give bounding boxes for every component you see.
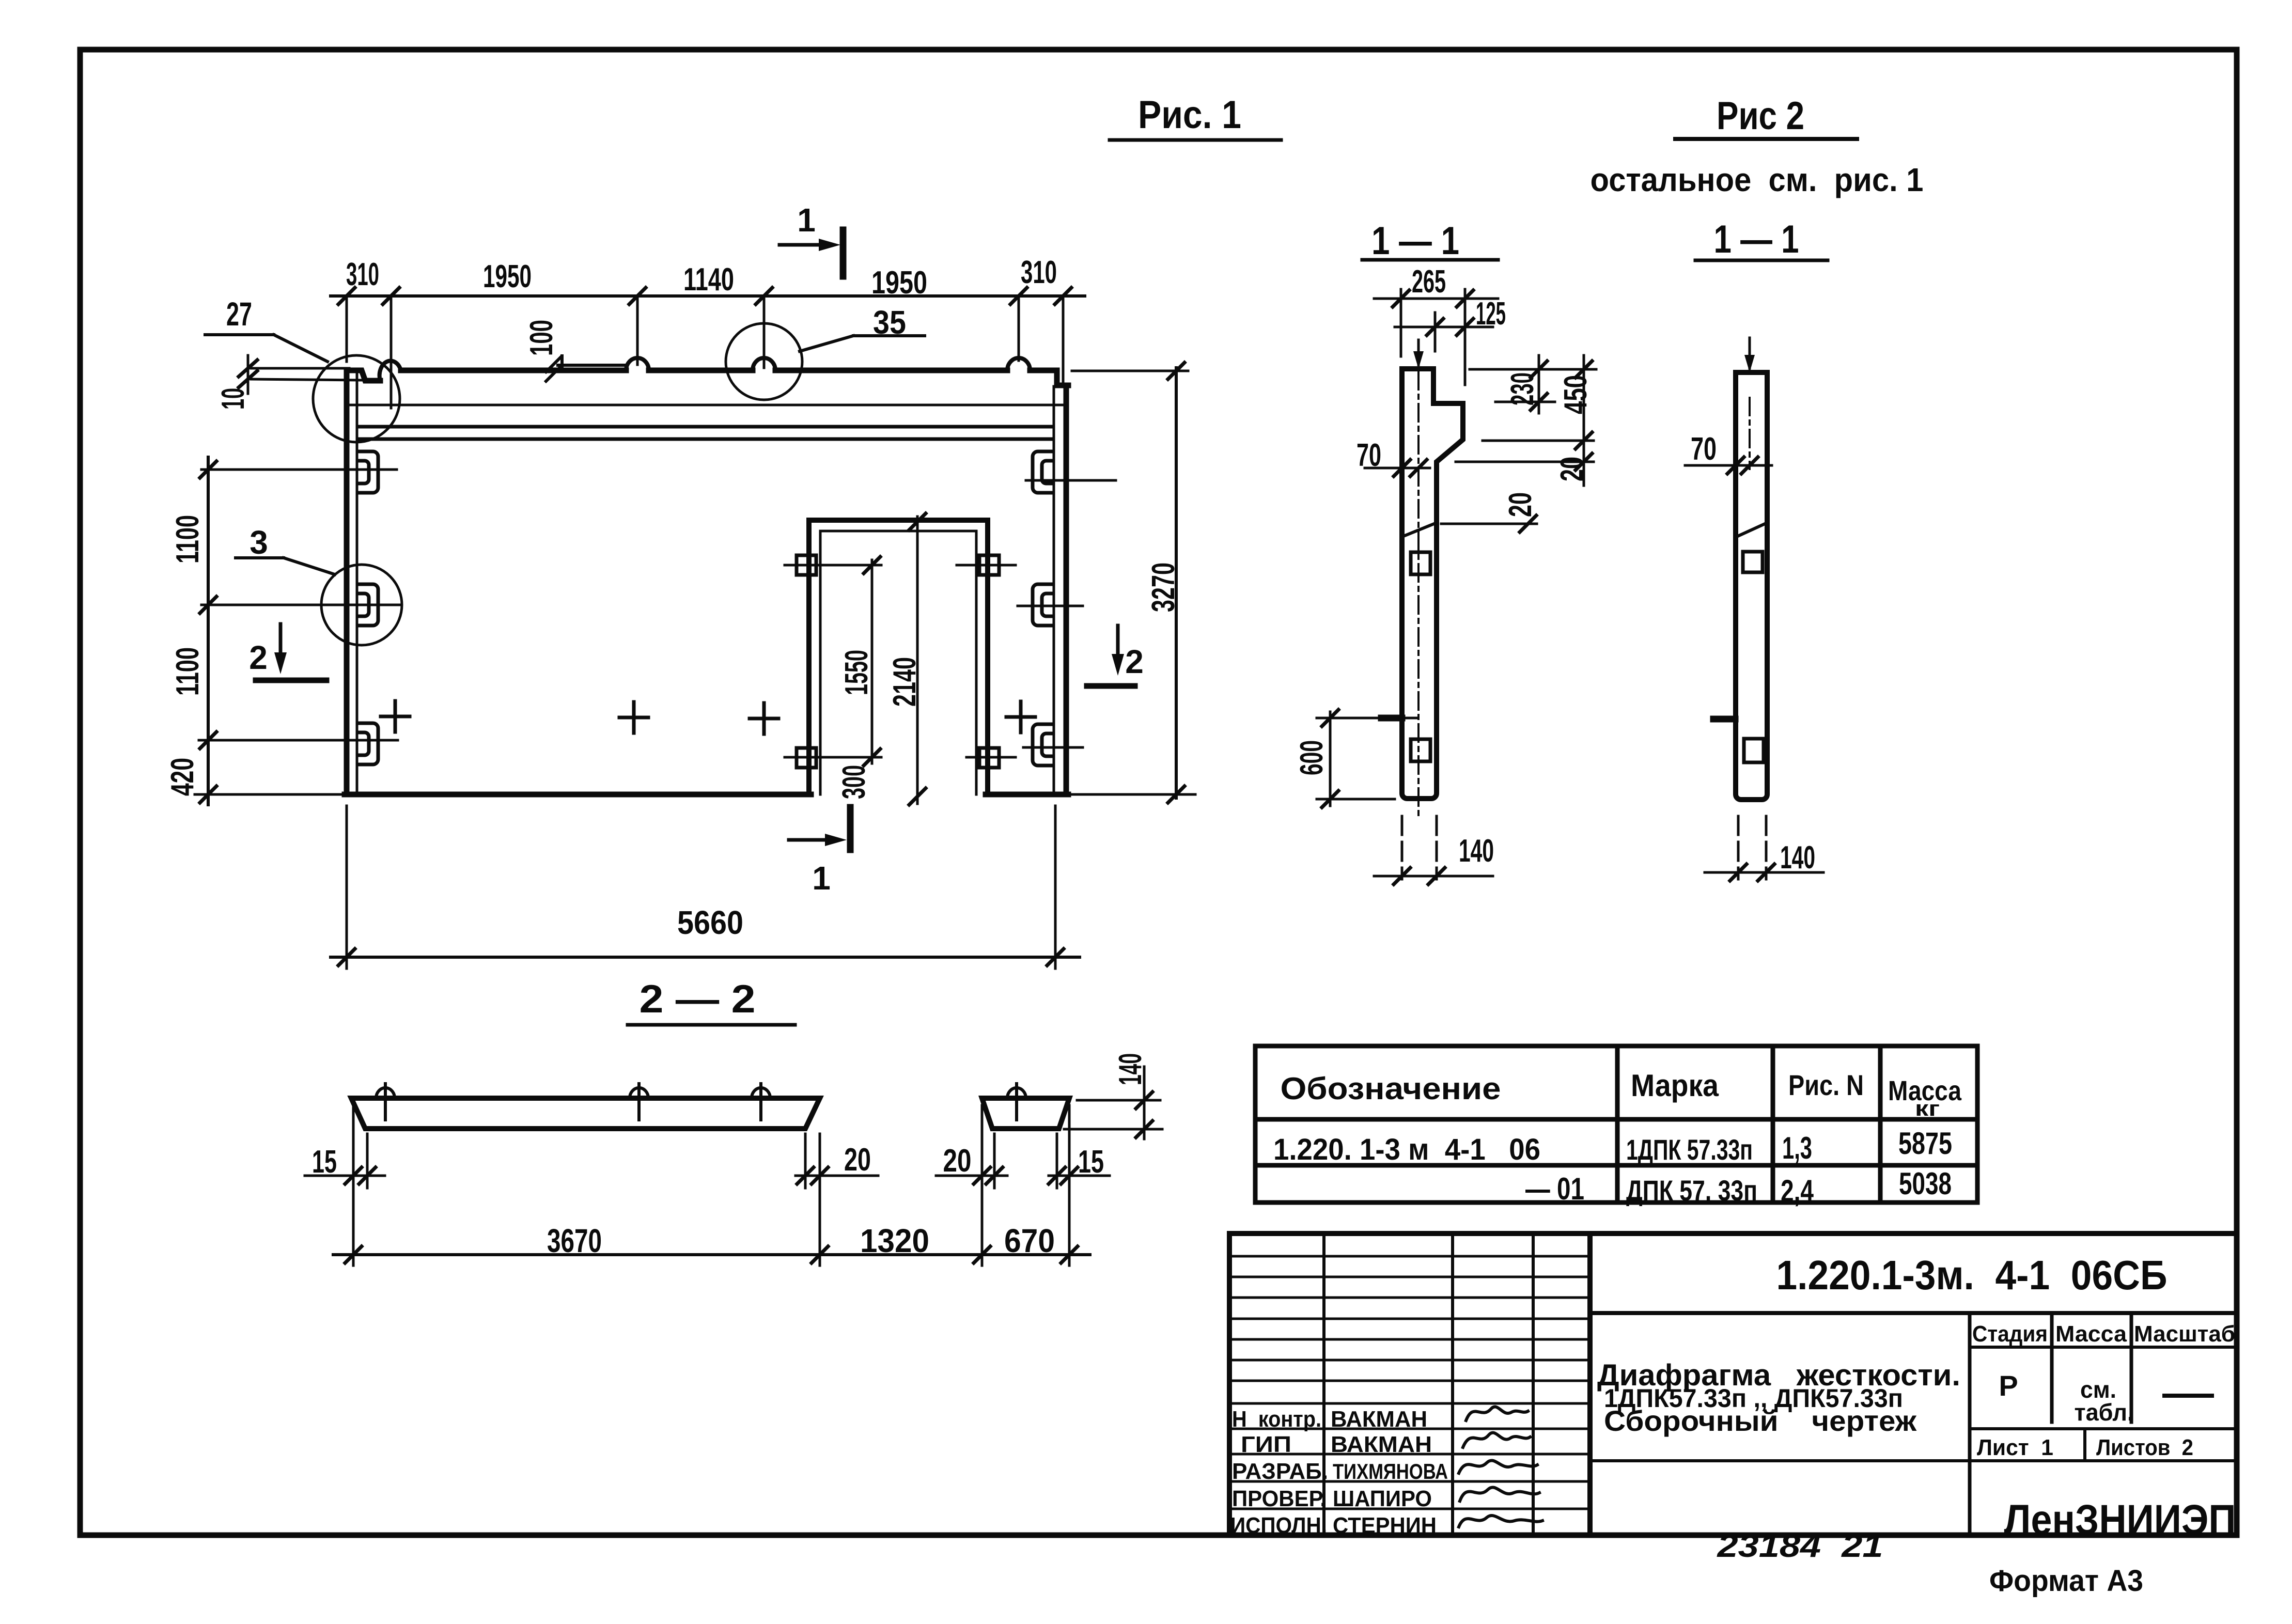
- svg-text:Рис. N: Рис. N: [1788, 1069, 1864, 1101]
- section 1-1 right hole upper: [1743, 552, 1763, 572]
- left clamp 3: [358, 723, 378, 764]
- svg-text:20: 20: [943, 1143, 972, 1179]
- centering cross 4: [1006, 701, 1035, 732]
- svg-text:СТЕРНИН: СТЕРНИН: [1333, 1513, 1437, 1538]
- panel bottom edge left part: [345, 792, 811, 798]
- jamb tab upper-right axis: [957, 564, 1016, 567]
- dim 140 right section: [1705, 816, 1823, 881]
- section 1-1 right profile: [1736, 372, 1767, 800]
- svg-text:ЛенЗНИИЭП: ЛенЗНИИЭП: [2004, 1496, 2236, 1543]
- svg-text:2 — 2: 2 — 2: [640, 977, 756, 1021]
- svg-text:230: 230: [1505, 372, 1540, 405]
- dim 70 right section: [1685, 431, 1772, 474]
- svg-text:1.220. 1-3 м 4-1 06: 1.220. 1-3 м 4-1 06: [1273, 1133, 1540, 1166]
- top band line lower: [358, 438, 1053, 441]
- svg-text:600: 600: [1294, 740, 1330, 775]
- top dimension line: [331, 294, 1085, 298]
- left clamp 1 axis: [201, 469, 397, 471]
- svg-text:1 — 1: 1 — 1: [1371, 219, 1459, 263]
- dim 300: [836, 765, 872, 799]
- svg-text:2: 2: [1125, 643, 1144, 680]
- svg-text:100: 100: [524, 320, 559, 356]
- svg-text:ДПК 57. 33п: ДПК 57. 33п: [1626, 1174, 1757, 1207]
- left clamp 2 axis: [201, 604, 400, 606]
- panel left edge inner: [356, 372, 358, 793]
- svg-text:310: 310: [1021, 255, 1057, 290]
- stamp area verticals: [1970, 1313, 2131, 1535]
- svg-text:1100: 1100: [170, 647, 206, 696]
- right clamp 2 axis: [1018, 605, 1083, 607]
- top dim extension lines: [347, 299, 1063, 408]
- svg-text:10: 10: [215, 388, 251, 410]
- loop 2 lay-flat line (100 detail): [558, 364, 627, 367]
- svg-text:20: 20: [1503, 492, 1538, 517]
- svg-text:кг: кг: [1915, 1096, 1940, 1120]
- section mark 2 right: [1087, 626, 1144, 686]
- centering cross 3: [750, 703, 778, 734]
- dim 20 left-mid (2-2): [796, 1142, 878, 1184]
- svg-text:Стадия: Стадия: [1972, 1321, 2048, 1347]
- svg-text:140: 140: [1780, 840, 1815, 876]
- dim 1550 vertical: [839, 557, 880, 766]
- 2-2 loop 2: [630, 1084, 648, 1120]
- section 1-1 right centerline: [1749, 398, 1751, 469]
- signature scribble 5: [1459, 1516, 1542, 1527]
- jamb tab lower-right axis: [966, 756, 1016, 759]
- left vertical dimension line: [207, 457, 210, 805]
- dim 20 break: [1441, 492, 1538, 532]
- section mark 1 bottom: [789, 807, 850, 897]
- bottom dim line (2-2): [333, 1222, 1090, 1263]
- line above Лист row: [1970, 1427, 2237, 1430]
- dim 20 flange: [1456, 457, 1594, 481]
- svg-text:310: 310: [346, 257, 379, 292]
- section 1-1 right hole lower: [1744, 739, 1764, 762]
- right clamp 2: [1033, 584, 1052, 626]
- lifting loop 2: [626, 358, 649, 370]
- section 1-1 left break line: [1404, 523, 1437, 536]
- title block outer lines: [1229, 1233, 2237, 1535]
- signature scribble 3: [1459, 1460, 1537, 1473]
- left dim ticks: [200, 461, 216, 803]
- svg-text:ГИП: ГИП: [1241, 1432, 1291, 1457]
- section 2-2 left slab: [351, 1098, 820, 1129]
- leader 3: [236, 524, 335, 574]
- svg-text:70: 70: [1691, 431, 1717, 467]
- top dim ticks: [338, 288, 1071, 304]
- svg-text:Сборочный чертеж: Сборочный чертеж: [1604, 1404, 1917, 1437]
- top band line upper: [349, 404, 1063, 407]
- jamb tab upper-left: [797, 555, 816, 575]
- title Рис. 1: [1110, 93, 1281, 140]
- svg-text:Р: Р: [1999, 1369, 2018, 1402]
- dim 230: [1470, 355, 1596, 413]
- svg-text:3270: 3270: [1146, 563, 1181, 612]
- svg-text:140: 140: [1459, 833, 1494, 869]
- svg-text:125: 125: [1476, 296, 1506, 332]
- dim 70 left section: [1357, 438, 1430, 476]
- svg-text:1: 1: [797, 201, 816, 239]
- dim 125: [1395, 296, 1506, 351]
- jamb tab lower-left: [797, 748, 816, 768]
- title 1-1 right: [1695, 217, 1828, 261]
- left clamp 2: [358, 584, 378, 626]
- svg-text:1ДПК 57.33п: 1ДПК 57.33п: [1626, 1133, 1753, 1166]
- line under Лист row: [1590, 1459, 2237, 1462]
- detail circle 35: [726, 323, 802, 400]
- svg-text:27: 27: [226, 295, 252, 333]
- jamb tab upper-right: [979, 555, 999, 575]
- svg-text:670: 670: [1004, 1222, 1055, 1259]
- door cutout outer: [809, 520, 988, 794]
- svg-text:23184 21: 23184 21: [1717, 1528, 1883, 1564]
- section 1-1 left weld axis: [1317, 717, 1418, 720]
- title Рис 2: [1675, 94, 1857, 139]
- svg-text:3: 3: [250, 524, 268, 561]
- lifting loop 3: [753, 358, 775, 370]
- section mark 2 left: [249, 624, 326, 680]
- left dim ext line top: [201, 469, 347, 471]
- svg-text:15: 15: [1078, 1144, 1104, 1180]
- right clamp 1 axis: [1026, 479, 1116, 482]
- stamp header underline: [1970, 1346, 2237, 1349]
- svg-text:1100: 1100: [170, 515, 206, 564]
- svg-text:5038: 5038: [1899, 1166, 1952, 1201]
- svg-text:Марка: Марка: [1631, 1068, 1719, 1103]
- svg-text:Обозначение: Обозначение: [1281, 1071, 1501, 1106]
- dim 20 right-mid (2-2): [936, 1143, 1007, 1184]
- svg-text:15: 15: [312, 1144, 337, 1180]
- svg-text:420: 420: [165, 758, 200, 796]
- right clamp 3: [1033, 724, 1052, 766]
- svg-text:3670: 3670: [547, 1222, 602, 1259]
- section 2-2 right slab: [982, 1098, 1069, 1129]
- svg-text:Н_контр.: Н_контр.: [1232, 1407, 1321, 1432]
- svg-text:1.220.1-3м. 4-1 06СБ: 1.220.1-3м. 4-1 06СБ: [1776, 1252, 2168, 1298]
- svg-text:1: 1: [812, 860, 831, 897]
- svg-text:табл.: табл.: [2075, 1399, 2134, 1426]
- bottom ext line for 420: [195, 793, 341, 796]
- right clamp 1: [1033, 451, 1052, 493]
- svg-text:1 — 1: 1 — 1: [1714, 217, 1799, 261]
- svg-text:ШАПИРО: ШАПИРО: [1333, 1486, 1432, 1511]
- svg-text:1,3: 1,3: [1782, 1131, 1812, 1165]
- signature scribble 4: [1460, 1487, 1539, 1501]
- signature scribble 2: [1463, 1433, 1530, 1447]
- section 1-1 right break line: [1738, 523, 1767, 536]
- svg-text:ВАКМАН: ВАКМАН: [1331, 1432, 1432, 1457]
- left clamp 1: [358, 451, 378, 493]
- svg-text:Листов 2: Листов 2: [2096, 1435, 2193, 1460]
- svg-text:ИСПОЛН.: ИСПОЛН.: [1230, 1513, 1327, 1538]
- dim 100 tick: [546, 356, 562, 381]
- title 1-1 left: [1362, 219, 1498, 263]
- svg-text:— 01: — 01: [1525, 1172, 1584, 1206]
- svg-text:1950: 1950: [483, 259, 532, 294]
- 2-2 loop 1: [376, 1084, 395, 1120]
- signature table verticals: [1324, 1233, 1533, 1535]
- section 1-1 left weld mark: [1381, 715, 1402, 722]
- svg-text:РАЗРАБ.: РАЗРАБ.: [1232, 1459, 1328, 1484]
- dim 15 right (2-2): [1049, 1144, 1110, 1184]
- section 1-1 right weld mark: [1713, 716, 1735, 723]
- panel right edge inner: [1053, 386, 1055, 793]
- signature table rows: [1229, 1256, 1590, 1509]
- section 1-1 left profile: [1402, 369, 1463, 799]
- dim 265: [1374, 264, 1498, 385]
- svg-text:Масса: Масса: [2055, 1321, 2127, 1347]
- svg-text:Рис 2: Рис 2: [1717, 94, 1804, 138]
- dim 2140 vertical: [887, 513, 926, 805]
- 2-2 loop 4: [1007, 1084, 1026, 1120]
- jamb tab lower-left axis: [785, 756, 881, 759]
- lifting loop 4: [1007, 358, 1030, 370]
- section 1-1 left hole lower: [1411, 739, 1430, 761]
- svg-text:2,4: 2,4: [1781, 1174, 1814, 1208]
- dim 3270 right: [1072, 363, 1195, 803]
- section 1-1 left hole upper: [1411, 552, 1430, 574]
- section 1-1 right centerline top: [1749, 338, 1751, 368]
- section mark 1 top: [779, 201, 843, 276]
- leader 27: [205, 295, 328, 362]
- title 2-2: [628, 977, 795, 1025]
- parts table frame: [1255, 1046, 1977, 1203]
- dim 600: [1294, 710, 1395, 807]
- svg-text:ПРОВЕР.: ПРОВЕР.: [1232, 1486, 1326, 1511]
- left clamp 3 axis: [199, 739, 398, 742]
- svg-text:300: 300: [836, 765, 872, 799]
- line under doc number: [1590, 1311, 2237, 1315]
- svg-text:1320: 1320: [860, 1222, 929, 1259]
- dim 140 left section: [1374, 816, 1494, 884]
- svg-text:5660: 5660: [677, 904, 743, 941]
- 2-2 loop 3: [752, 1084, 770, 1120]
- leader 35: [800, 304, 925, 351]
- dim 450: [1483, 355, 1594, 486]
- svg-text:140: 140: [1113, 1053, 1148, 1085]
- panel left edge outer: [344, 370, 350, 794]
- right clamp 3 axis: [1023, 746, 1083, 749]
- dim 140 (2-2): [1064, 1053, 1162, 1139]
- svg-text:2: 2: [249, 639, 268, 676]
- centering cross 2: [619, 702, 648, 733]
- svg-text:2140: 2140: [887, 657, 923, 707]
- jamb tab upper-left axis: [785, 564, 881, 567]
- dim 5660 bottom: [331, 806, 1080, 969]
- svg-text:1550: 1550: [839, 650, 875, 695]
- svg-text:ТИХМЯНОВА: ТИХМЯНОВА: [1333, 1459, 1448, 1484]
- svg-text:Формат А3: Формат А3: [1989, 1564, 2143, 1598]
- svg-text:5875: 5875: [1898, 1126, 1952, 1161]
- svg-text:20: 20: [844, 1142, 871, 1178]
- svg-text:Лист 1: Лист 1: [1977, 1435, 2053, 1460]
- section 1-1 left centerline: [1417, 372, 1420, 816]
- dim 15 left (2-2): [305, 1144, 385, 1184]
- detail circle 3: [321, 565, 402, 645]
- svg-text:1950: 1950: [871, 265, 927, 301]
- dim 10 at corner: [215, 355, 362, 410]
- 2-2 ext lines verticals: [353, 1105, 1069, 1266]
- panel bottom edge right part: [986, 792, 1068, 798]
- signature scribble 1: [1466, 1407, 1528, 1420]
- svg-text:20: 20: [1554, 457, 1590, 481]
- svg-text:ВАКМАН: ВАКМАН: [1331, 1407, 1427, 1432]
- svg-text:1140: 1140: [683, 262, 734, 298]
- centering cross 1: [381, 701, 410, 732]
- svg-text:Масштаб: Масштаб: [2134, 1321, 2235, 1347]
- stamp value dash: [2164, 1394, 2212, 1398]
- door cutout inner: [820, 531, 976, 794]
- svg-text:70: 70: [1357, 438, 1381, 473]
- svg-text:265: 265: [1412, 264, 1446, 300]
- detail circle 27: [313, 355, 400, 442]
- panel top edge with lifting loops: [347, 370, 1068, 385]
- panel right edge outer: [1064, 385, 1069, 794]
- section 1-1 left centerline top: [1417, 340, 1420, 365]
- lifting loop 1: [380, 361, 401, 381]
- svg-text:Рис. 1: Рис. 1: [1138, 93, 1241, 137]
- svg-text:450: 450: [1558, 375, 1594, 414]
- svg-text:остальное см. рис. 1: остальное см. рис. 1: [1591, 161, 1924, 198]
- jamb tab lower-right: [979, 748, 999, 768]
- top band line middle: [358, 425, 1053, 429]
